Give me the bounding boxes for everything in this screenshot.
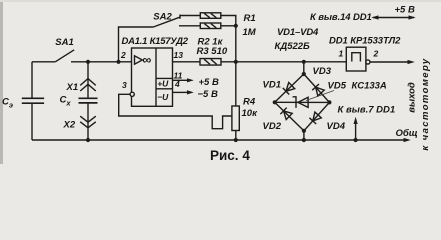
node: rail / bridge [302,138,306,142]
wire: feedback column down to signal line [235,26,237,62]
wire: input line node to op-amp pin 2 [88,61,132,63]
diode VD4 [313,112,322,121]
wire: bottom common rail [32,139,404,141]
arrow: pin 4 to -5V [187,90,194,94]
svg-text:3: 3 [122,80,127,90]
node: bridge top vertex [302,72,306,76]
wire: K vyv.7 DD1 up arrow line [355,123,357,140]
svg-text:VD2: VD2 [263,121,282,132]
svg-text:VD3: VD3 [313,66,332,77]
arrow: pin 11 to +5V [187,78,194,82]
svg-text:выход: выход [407,82,418,113]
wire: DD1 output line [370,61,408,63]
resistor R4 body [232,106,239,131]
connector X2 chevrons [80,116,96,122]
wire: X1 column down to Cx [87,62,89,99]
node: bridge left vertex [273,100,277,104]
op-amp triangle symbol [135,56,143,64]
svg-text:VD4: VD4 [327,121,346,132]
wire: R2 right to vertical column [221,25,236,27]
svg-text:1М: 1М [243,27,257,38]
node: bridge right vertex [327,100,331,104]
svg-text:1: 1 [339,49,344,59]
svg-text:X1: X1 [66,82,79,93]
wire: +5V double arrow line [373,17,414,19]
svg-text:R4: R4 [243,96,256,107]
svg-text:К выв.14 DD1: К выв.14 DD1 [310,12,372,23]
svg-text:R1: R1 [244,13,256,24]
capacitor C3 plates [22,98,44,103]
wire: zener middle link [275,101,330,103]
node: rail / pin7 arrow [354,138,358,142]
arrow: common rail end [404,138,411,142]
svg-text:2: 2 [373,49,379,59]
svg-text:−5 В: −5 В [198,89,218,100]
svg-text:R3 510: R3 510 [197,46,228,57]
svg-text:X2: X2 [63,120,76,131]
svg-text:VD1: VD1 [263,80,281,91]
node: input line / SA2 junction [116,60,120,64]
svg-text:+U: +U [157,79,169,89]
wire: R4 bottom lead to rail [235,131,237,141]
svg-text:SA1: SA1 [55,37,73,48]
wire: bridge bottom to rail [303,131,305,140]
wire: op-amp output pin 13 to R3 [173,61,201,63]
wire: bridge top feed [303,62,305,74]
node: rail / X2 [86,138,90,142]
wire: SA1 left segment [32,61,55,63]
svg-text:+5 В: +5 В [199,77,219,88]
svg-text:SA2: SA2 [153,11,172,22]
diode VD2 [284,111,293,120]
svg-text:−U: −U [157,92,169,102]
wire: C3 bottom to ground rail [31,103,33,140]
op-amp DA1.1 body [132,48,173,106]
capacitor Cx plates [79,98,98,103]
leader line to VD5 [306,91,334,101]
node: signal line / bridge [302,60,306,64]
switch SA2 blade [153,17,180,27]
svg-text:13: 13 [174,50,184,60]
svg-text:КД522Б: КД522Б [275,41,311,52]
svg-text:VD1–VD4: VD1–VD4 [277,27,319,38]
node: R1-R2 join [234,24,238,28]
svg-text:VD5: VD5 [328,81,347,92]
wire: left rail from SA1 down to C3 [31,62,33,99]
wire: main signal line to DD1 [221,61,346,63]
Schmitt trigger DD1 body [346,47,366,71]
arrow: to DD1 pin 7 [354,117,358,124]
DD1 output inversion circle [366,60,370,64]
DD1 hysteresis symbol [352,53,361,62]
wire: pin 11 stub arrow line (already above) [2,4,431,163]
zener VD5 [298,97,308,107]
diode VD1 [286,83,295,92]
svg-text:Общ: Общ [396,128,418,139]
wire: SA1 right segment to node [71,61,88,63]
svg-text:DD1 КР1533ТЛ2: DD1 КР1533ТЛ2 [329,35,401,46]
switch SA1 blade [55,50,74,62]
diode bridge edges [275,74,330,131]
svg-text:к частотомеру: к частотомеру [420,57,431,150]
node: bridge bottom vertex [302,129,306,133]
resistor R2 body [200,23,221,29]
resistor R1 body [200,13,221,18]
wire: Cx bottom through X2 to rail [87,103,89,140]
arrow: +5V double arrow heads [371,15,378,19]
svg-text:Рис. 4: Рис. 4 [210,148,250,163]
svg-text:2: 2 [120,50,126,60]
svg-text:DA1.1 К157УД2: DA1.1 К157УД2 [122,36,189,47]
svg-text:КС133А: КС133А [352,81,387,92]
wire: pin 11 stub [173,79,189,81]
arrow: output to frequency meter [408,60,415,64]
wire: R1 right to vertical column [221,16,236,26]
node: input line / X1 junction [86,60,90,64]
wire: SA2 lower contact to R2 [179,25,200,27]
svg-text:К выв.7 DD1: К выв.7 DD1 [338,105,396,116]
diode VD3 [316,87,325,96]
resistor R3 body [200,59,221,66]
svg-text:4: 4 [174,79,180,89]
node: rail / R4 [234,138,238,142]
svg-text:∞: ∞ [142,53,151,67]
node: feedback / signal line [234,60,238,64]
wire: pin 3 routed below to R4 [119,94,232,128]
resistor R4 vertical column [235,62,237,106]
switch SA2 contact tick [179,15,181,19]
connector X1 chevrons [80,79,96,86]
wire: SA2 common vertical from input line [119,27,154,62]
svg-text:+5 В: +5 В [395,4,415,15]
svg-text:10к: 10к [242,108,259,119]
wire: SA2 upper contact to R1 [181,15,201,17]
wire: pin 4 stub [173,91,189,93]
op-amp pin 3 inversion circle [130,92,134,96]
